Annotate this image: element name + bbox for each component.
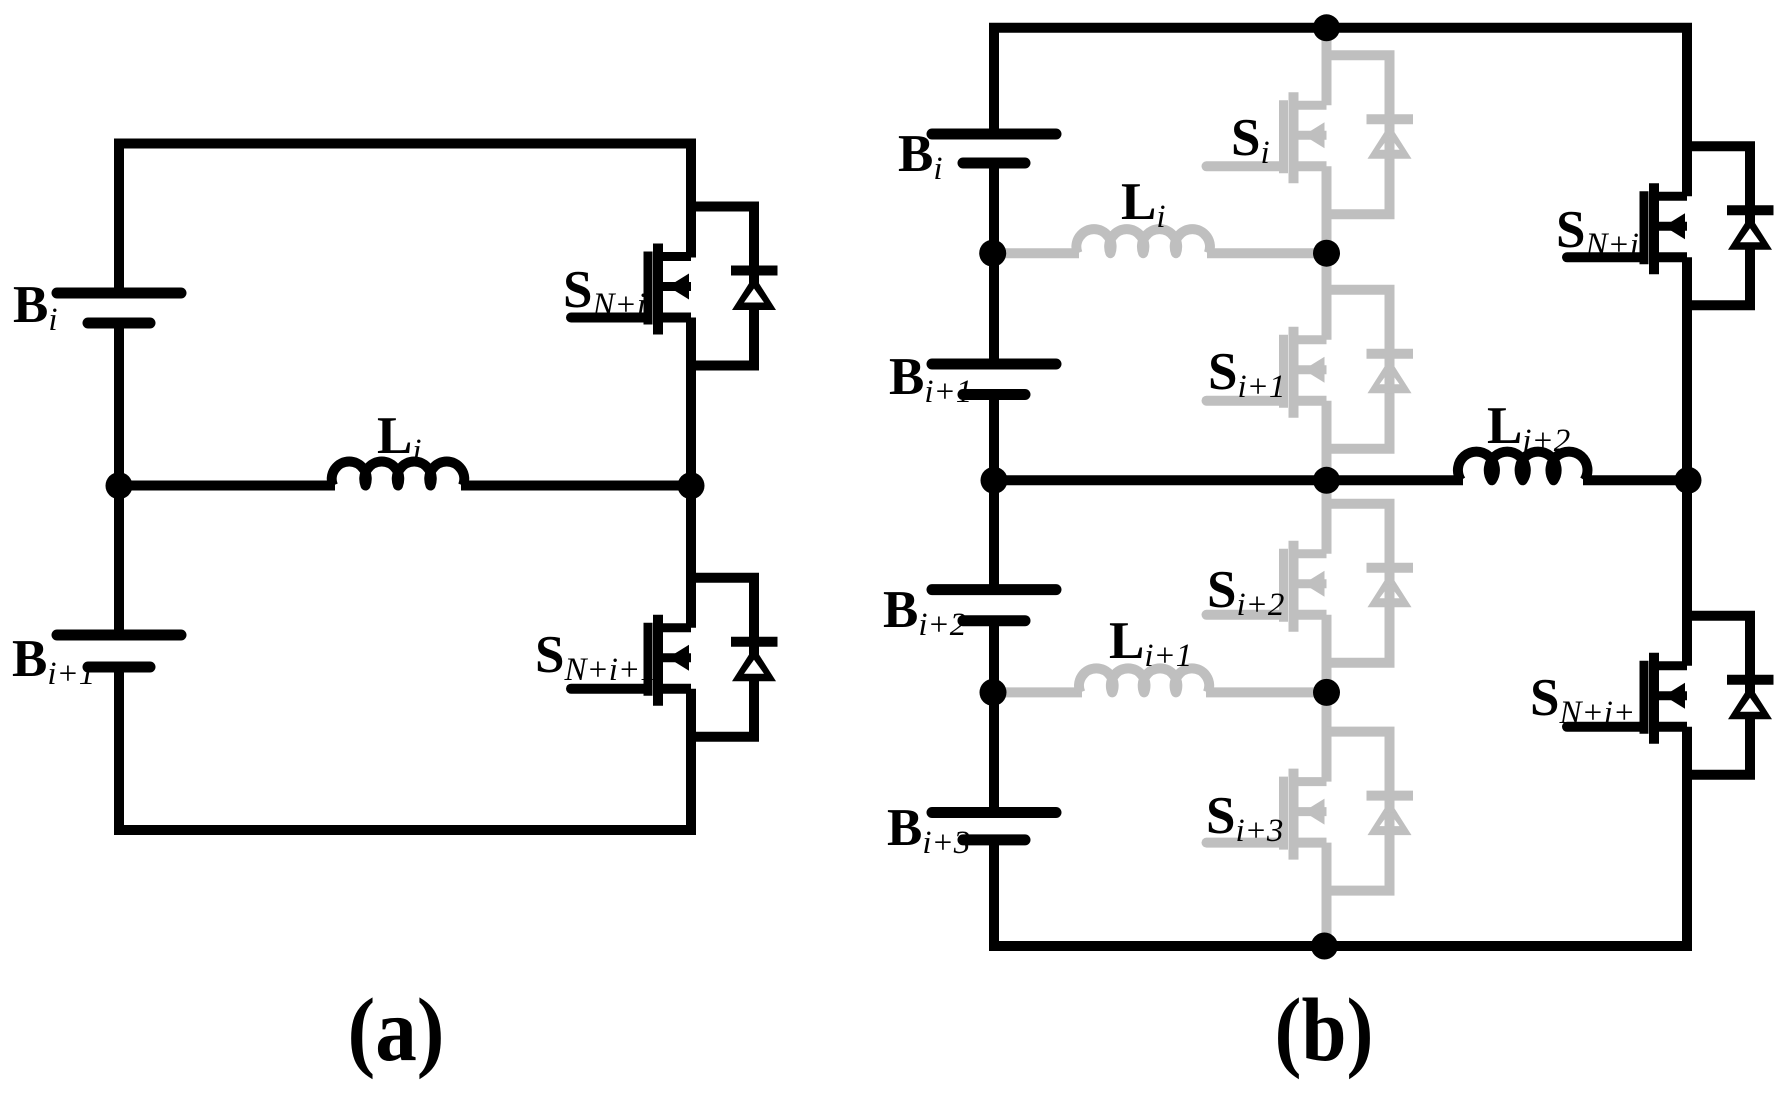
wire (a) left rail middle segment xyxy=(114,323,124,635)
wire (b) middle wire left of L_i+2 xyxy=(994,475,1463,485)
body diode of S_i+1 xyxy=(1327,290,1414,449)
wire (b) left rail seg 2 xyxy=(989,163,999,364)
svg-text:Bi+1: Bi+1 xyxy=(889,348,972,410)
junction node (b) middle right xyxy=(1675,467,1702,494)
body diode of S_N+i (a) xyxy=(691,207,778,366)
wire (b) center column seg bottom (gray) xyxy=(1322,843,1332,946)
wire (a) bottom rail + lower rails xyxy=(119,667,691,830)
svg-text:Li+2: Li+2 xyxy=(1487,397,1570,459)
transistor S_i+3 xyxy=(1207,769,1327,860)
junction node (b) bottom center xyxy=(1311,933,1338,960)
transistor S_i+2 xyxy=(1207,541,1327,632)
transistor S_N+i (a) xyxy=(571,244,691,335)
transistor S_N+i+1 (a) xyxy=(571,615,691,706)
inductor L_i+2 (b) xyxy=(1458,452,1588,481)
svg-text:SN+i: SN+i xyxy=(563,261,646,323)
svg-text:Li: Li xyxy=(1121,173,1166,235)
wire (b) center column seg 4 (gray) xyxy=(1322,615,1332,782)
junction node (b) middle center xyxy=(1313,467,1340,494)
wire (b) left rail seg 4 xyxy=(989,621,999,813)
battery B_i+2 (b) xyxy=(932,590,1056,621)
transistor S_i+1 xyxy=(1207,327,1327,418)
wire (b) right rail middle segment xyxy=(1682,257,1692,666)
transistor S_N+i+1 (b) xyxy=(1567,653,1687,744)
inductor L_i (a) xyxy=(332,462,465,486)
svg-text:Si: Si xyxy=(1231,109,1270,171)
svg-text:(a): (a) xyxy=(348,981,445,1080)
body diode of S_N+i+1 (a) xyxy=(691,578,778,737)
body diode of S_i+2 xyxy=(1327,504,1414,663)
svg-text:Li: Li xyxy=(377,407,422,469)
body diode of S_i+3 xyxy=(1327,732,1414,891)
body diode of S_N+i+1 (b) xyxy=(1687,616,1774,775)
svg-text:SN+i+1: SN+i+1 xyxy=(1530,669,1652,731)
svg-text:Li+1: Li+1 xyxy=(1109,612,1192,674)
battery B_i+3 (b) xyxy=(932,813,1056,840)
svg-text:SN+i+1: SN+i+1 xyxy=(535,626,657,688)
body diode of S_N+i (b) xyxy=(1687,146,1774,305)
junction node (a) middle-right xyxy=(678,472,705,499)
svg-text:Si+3: Si+3 xyxy=(1206,787,1283,849)
wire (a) top rail + upper rails xyxy=(119,144,691,294)
junction node (b) L_i+1 row left xyxy=(980,679,1007,706)
inductor L_i (b) xyxy=(1076,229,1210,253)
wire (b) L_i row wire right (gray) xyxy=(1207,248,1327,258)
battery B_i (b) xyxy=(932,134,1056,163)
wire (b) L_i+1 row wire right (gray) xyxy=(1206,687,1327,697)
junction node (b) L_i+1 row center xyxy=(1313,679,1340,706)
wire (b) L_i+1 row wire left (gray) xyxy=(994,687,1082,697)
battery B_i+1 (b) xyxy=(932,364,1056,395)
wire (b) center column seg top (gray) xyxy=(1322,28,1332,106)
wire (b) top rail + upper side rails xyxy=(994,28,1687,197)
inductor L_i+1 (b) xyxy=(1079,668,1209,692)
wire (b) L_i row wire left (gray) xyxy=(994,248,1079,258)
body diode of S_i xyxy=(1327,55,1414,214)
svg-text:Si+1: Si+1 xyxy=(1208,343,1285,405)
wire (a) middle wire right of L_i xyxy=(461,481,691,491)
transistor S_i xyxy=(1207,92,1327,183)
wire (b) middle wire right of L_i+2 xyxy=(1583,475,1687,485)
wire (a) right rail middle segment xyxy=(686,318,696,628)
junction node (b) middle left xyxy=(981,467,1008,494)
junction node (b) top center xyxy=(1313,14,1340,41)
wire (a) middle wire left of L_i xyxy=(119,481,335,491)
junction node (b) L_i row left xyxy=(979,240,1006,267)
svg-text:Si+2: Si+2 xyxy=(1207,561,1284,623)
wire (b) center column seg 3 (gray) xyxy=(1322,401,1332,554)
svg-text:SN+i: SN+i xyxy=(1556,201,1639,263)
junction node (a) middle-left xyxy=(106,472,133,499)
wire (b) center column seg 2 (gray) xyxy=(1322,166,1332,339)
wire (b) left rail seg 3 xyxy=(989,395,999,590)
svg-text:Bi: Bi xyxy=(13,276,58,338)
battery B_i (a) xyxy=(57,293,181,323)
battery B_i+1 (a) xyxy=(57,635,181,667)
wire (b) bottom rail + lower side rails xyxy=(994,727,1687,946)
transistor S_N+i (b) xyxy=(1567,183,1687,274)
junction node (b) L_i row center xyxy=(1313,240,1340,267)
svg-text:(b): (b) xyxy=(1275,981,1374,1080)
